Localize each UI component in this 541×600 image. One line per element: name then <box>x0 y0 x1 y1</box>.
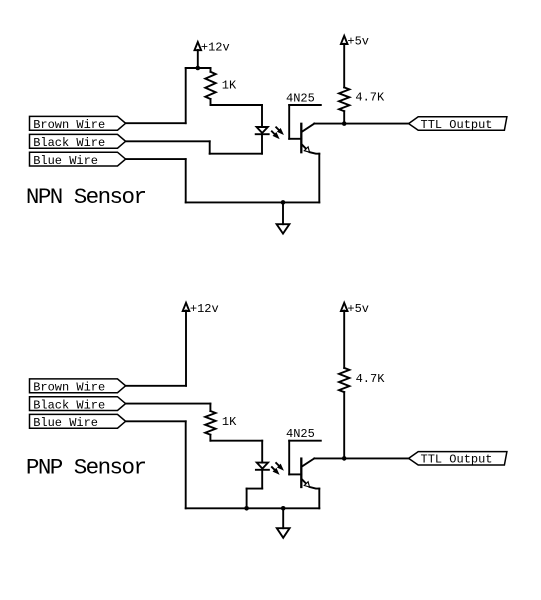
svg-text:TTL Output: TTL Output <box>421 453 493 467</box>
svg-text:+5v: +5v <box>347 302 369 316</box>
svg-text:4.7K: 4.7K <box>355 91 385 105</box>
svg-text:+5v: +5v <box>347 34 369 48</box>
svg-text:Black Wire: Black Wire <box>33 136 105 150</box>
svg-text:Brown Wire: Brown Wire <box>33 381 105 395</box>
svg-text:TTL Output: TTL Output <box>421 118 493 132</box>
svg-text:Blue Wire: Blue Wire <box>33 416 98 430</box>
svg-text:4N25: 4N25 <box>286 91 315 105</box>
svg-text:1K: 1K <box>222 415 237 429</box>
svg-text:PNP Sensor: PNP Sensor <box>26 454 146 480</box>
svg-text:NPN Sensor: NPN Sensor <box>26 184 146 210</box>
svg-text:Black Wire: Black Wire <box>33 399 105 413</box>
svg-text:+12v: +12v <box>201 40 230 54</box>
svg-text:Brown Wire: Brown Wire <box>33 118 105 132</box>
svg-text:4.7K: 4.7K <box>356 372 386 386</box>
svg-text:4N25: 4N25 <box>286 427 315 441</box>
svg-text:1K: 1K <box>222 79 237 93</box>
svg-text:+12v: +12v <box>190 302 219 316</box>
svg-text:Blue Wire: Blue Wire <box>33 154 98 168</box>
